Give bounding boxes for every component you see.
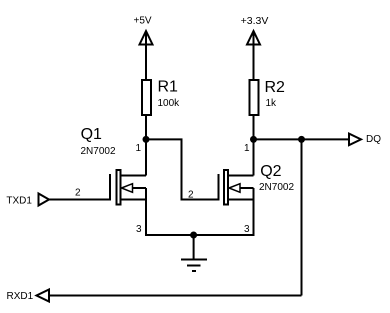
power arrow +3.3V xyxy=(247,31,260,45)
svg-text:Q2: Q2 xyxy=(260,163,281,180)
ground symbol xyxy=(181,260,207,272)
signal tag TXD1 xyxy=(39,194,50,206)
transistor Q2 source lead xyxy=(229,199,254,201)
svg-text:R2: R2 xyxy=(265,79,286,96)
wire +3.3V rail to Q2 drain xyxy=(253,32,255,176)
transistor Q1 body arrow xyxy=(122,184,133,193)
wire +5V rail to Q1 drain xyxy=(145,32,147,176)
transistor Q1 channel body xyxy=(117,170,121,205)
wire ground stub xyxy=(193,235,195,259)
transistor Q1 drain lead xyxy=(122,175,147,177)
svg-text:2: 2 xyxy=(75,188,81,199)
transistor Q1 body lead xyxy=(133,187,147,189)
node RXD1 tap junction dot xyxy=(298,136,305,143)
svg-text:Q1: Q1 xyxy=(81,126,102,143)
transistor Q2 gate bar xyxy=(218,174,220,201)
wire TXD1 to Q1 gate xyxy=(49,199,110,201)
svg-text:DQ: DQ xyxy=(366,134,381,145)
transistor Q1 source lead xyxy=(122,199,147,201)
svg-text:R1: R1 xyxy=(158,79,179,96)
svg-text:TXD1: TXD1 xyxy=(6,196,32,207)
wire Q2 source down xyxy=(253,188,255,236)
svg-text:+5V: +5V xyxy=(134,16,152,27)
svg-text:2N7002: 2N7002 xyxy=(81,146,116,157)
transistor Q2 channel body xyxy=(224,170,228,205)
wire DQ output xyxy=(254,138,350,140)
wire RXD1 horizontal xyxy=(49,295,302,297)
power arrow +5V xyxy=(140,31,153,45)
resistor R2 body xyxy=(250,80,259,115)
resistor R1 body xyxy=(142,80,151,115)
svg-text:100k: 100k xyxy=(158,98,181,109)
node Q1-drain junction dot xyxy=(143,136,150,143)
svg-text:2N7002: 2N7002 xyxy=(259,182,294,193)
signal tag RXD1 xyxy=(37,290,50,302)
wire RXD1 vertical xyxy=(301,139,303,295)
svg-text:3: 3 xyxy=(244,224,250,235)
wire Q1 drain node to Q2 gate xyxy=(146,139,218,199)
signal tag DQ xyxy=(349,134,361,146)
svg-text:1: 1 xyxy=(244,143,250,154)
transistor Q2 drain lead xyxy=(229,175,254,177)
svg-text:3: 3 xyxy=(136,224,142,235)
svg-text:1k: 1k xyxy=(266,98,278,109)
svg-text:1: 1 xyxy=(136,143,142,154)
wire Q1 source down xyxy=(145,188,147,236)
svg-text:RXD1: RXD1 xyxy=(7,291,34,302)
node ground junction dot xyxy=(190,232,197,239)
svg-text:2: 2 xyxy=(188,190,194,201)
node Q2-drain junction dot xyxy=(250,136,257,143)
wire source bus Q1 to Q2 xyxy=(146,234,254,236)
svg-text:+3.3V: +3.3V xyxy=(241,15,269,27)
transistor Q1 gate bar xyxy=(109,174,111,201)
transistor Q2 body arrow xyxy=(229,184,240,193)
transistor Q2 body lead xyxy=(240,187,254,189)
